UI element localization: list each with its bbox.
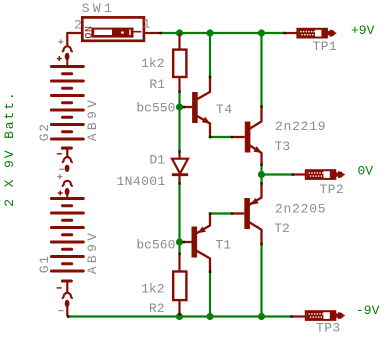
svg-text:-9V: -9V: [356, 303, 380, 318]
svg-text:1k2: 1k2: [141, 56, 164, 71]
svg-text:TP2: TP2: [320, 182, 345, 197]
svg-text:G2: G2: [37, 122, 52, 141]
svg-text:TP1: TP1: [313, 39, 338, 54]
svg-text:R2: R2: [149, 301, 165, 316]
svg-text:T4: T4: [216, 102, 233, 117]
svg-text:2n2205: 2n2205: [275, 202, 326, 217]
svg-text:SW1: SW1: [82, 1, 116, 16]
svg-text:AB9V: AB9V: [85, 96, 100, 141]
svg-text:T3: T3: [275, 139, 291, 154]
svg-text:1: 1: [143, 16, 151, 31]
svg-text:G1: G1: [37, 254, 52, 273]
svg-text:ON: ON: [85, 25, 96, 38]
svg-text:D1: D1: [149, 153, 165, 168]
svg-text:TP3: TP3: [316, 320, 341, 335]
svg-text:T1: T1: [215, 237, 231, 252]
svg-text:AB9V: AB9V: [85, 229, 100, 274]
svg-text:T2: T2: [274, 221, 290, 236]
svg-text:R1: R1: [149, 77, 165, 92]
svg-text:1N4001: 1N4001: [116, 174, 165, 189]
svg-text:2 X 9V Batt.: 2 X 9V Batt.: [2, 90, 17, 206]
svg-text:+9V: +9V: [351, 23, 375, 38]
svg-text:2: 2: [74, 17, 82, 32]
svg-text:bc550: bc550: [136, 101, 175, 116]
svg-text:bc560: bc560: [136, 237, 175, 252]
svg-text:2n2219: 2n2219: [275, 119, 326, 134]
svg-text:1k2: 1k2: [141, 281, 164, 296]
svg-text:0V: 0V: [358, 163, 374, 178]
